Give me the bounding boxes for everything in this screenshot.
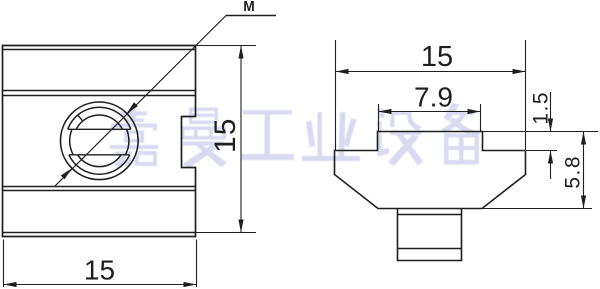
dimension 1.5 xyxy=(483,92,599,179)
extension line top xyxy=(196,45,257,47)
svg-text:15: 15 xyxy=(421,41,453,73)
inner line y=187 xyxy=(3,186,196,188)
arrow left xyxy=(4,282,17,287)
arrow up xyxy=(581,132,586,145)
inner line y=233 xyxy=(3,232,196,234)
extension line right xyxy=(525,40,527,150)
stem rectangle xyxy=(398,209,462,261)
stem line 1 xyxy=(398,214,462,216)
extension: flange bottom line extended right xyxy=(482,208,592,210)
inner line y=49.5 xyxy=(3,49,196,51)
horizontal dimension 15 (left view bottom) xyxy=(4,240,197,288)
svg-text:15: 15 xyxy=(84,255,115,286)
arrow left xyxy=(379,109,392,114)
dimension 5.8 xyxy=(482,132,592,209)
leader arrowhead upper xyxy=(127,102,138,113)
dimension line xyxy=(583,132,585,209)
arrow left xyxy=(336,69,349,74)
dimension 7.9 xyxy=(379,104,481,132)
dimension line xyxy=(379,111,481,113)
wm char bei xyxy=(442,103,481,165)
svg-text:7.9: 7.9 xyxy=(414,82,453,113)
dim line lower tail xyxy=(550,151,552,180)
leader line for M thread callout xyxy=(55,16,276,187)
arrow down xyxy=(238,220,243,233)
thread bottom arc xyxy=(78,155,121,167)
svg-text:15: 15 xyxy=(209,118,242,153)
extension line right xyxy=(480,104,482,132)
counterbore top arc xyxy=(68,107,131,129)
profile outline xyxy=(335,132,526,209)
extension: boss top line extended right xyxy=(483,131,599,133)
extension line left xyxy=(3,240,5,288)
arrow up xyxy=(238,46,243,59)
wm char she xyxy=(377,108,424,167)
chord line bottom xyxy=(69,154,130,156)
thread run-out stub xyxy=(78,115,83,121)
arrow up to wing top xyxy=(548,151,553,164)
arrow down to boss top xyxy=(548,119,553,132)
chord line top xyxy=(68,128,131,130)
arrow right xyxy=(468,109,481,114)
wm char jia xyxy=(110,107,158,168)
svg-text:M: M xyxy=(243,0,255,15)
leader arrowhead lower xyxy=(61,168,72,179)
arrow down xyxy=(581,196,586,209)
dim line upper tail xyxy=(550,92,552,132)
vertical dimension 15 (left view) xyxy=(196,46,257,233)
hole right arc xyxy=(125,129,129,155)
hole left arc xyxy=(70,129,74,155)
wm char gong xyxy=(241,110,294,160)
arrow right xyxy=(513,69,526,74)
extension line left xyxy=(378,104,380,132)
body outline xyxy=(3,46,196,237)
inner line y=190.5 xyxy=(3,190,196,192)
outer circle of threaded hole xyxy=(61,102,139,180)
svg-text:1.5: 1.5 xyxy=(530,91,553,125)
dimension line xyxy=(240,46,242,233)
extension line left xyxy=(335,40,337,150)
thread top arc xyxy=(76,115,122,129)
watermark 嘉曼工业设备 (hand-drawn light strokes) xyxy=(110,103,481,168)
wm char man xyxy=(181,108,227,169)
extension line bottom xyxy=(196,232,257,234)
svg-text:5.8: 5.8 xyxy=(562,155,585,189)
extension: wing top line extended right xyxy=(526,150,558,152)
stem line 2 xyxy=(398,248,462,250)
inner line y=90.5 xyxy=(3,90,196,92)
extension line right xyxy=(196,240,198,288)
dimension line xyxy=(4,284,197,286)
arrow right xyxy=(184,282,197,287)
counterbore bottom arc xyxy=(69,155,130,174)
dimension line xyxy=(336,71,526,73)
dimension 15 (right view top) xyxy=(336,40,526,150)
inner line y=95 xyxy=(3,95,196,97)
wm char ye xyxy=(302,112,360,161)
